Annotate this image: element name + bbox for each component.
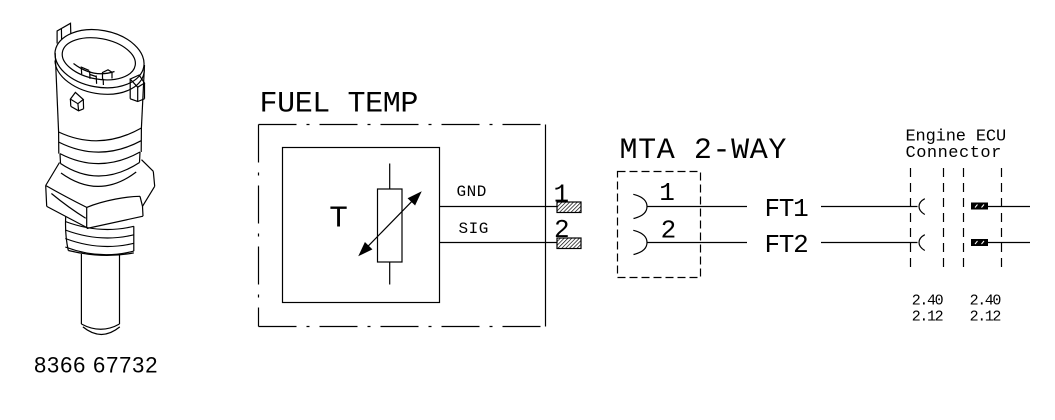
right latch vertical edges: [130, 79, 144, 101]
svg-text:T: T: [329, 202, 348, 237]
body ring arc 1: [59, 128, 142, 141]
svg-text:FUEL TEMP: FUEL TEMP: [260, 88, 418, 122]
svg-text:2.12: 2.12: [970, 309, 1001, 326]
ECU boundary dashed line 2: [943, 168, 945, 269]
arrowhead upper: [409, 193, 421, 205]
ECU boundary dashed line 3: [963, 168, 965, 269]
svg-text:FT1: FT1: [765, 194, 809, 224]
thread arc 1: [65, 222, 134, 230]
fuel temp outer box dash-dot left: [258, 125, 260, 327]
right latch block top face: [130, 75, 144, 87]
MTA terminal arc 2: [633, 230, 647, 254]
ECU boundary dashed line 4: [1001, 168, 1003, 269]
terminal details inside oval: [81, 67, 103, 86]
connector left wall: [55, 53, 58, 132]
svg-text:8366 67732: 8366 67732: [34, 352, 158, 377]
svg-text:MTA 2-WAY: MTA 2-WAY: [620, 134, 787, 168]
MTA connector dashed box: [618, 172, 701, 278]
svg-text:2.40: 2.40: [912, 293, 944, 310]
right latch bottom edges: [130, 99, 144, 102]
locking tab divider: [60, 29, 62, 40]
probe bottom cap lower arc: [83, 327, 120, 335]
wire FT1 right segment: [821, 206, 918, 208]
fuel temp outer box dash-dot bottom: [259, 326, 546, 328]
probe left wall: [80, 254, 82, 324]
svg-text:2: 2: [661, 216, 677, 246]
hex top face chamfer circle arc: [61, 172, 136, 186]
svg-text:2.12: 2.12: [912, 309, 943, 326]
terminal terrace edges: [82, 67, 96, 76]
fuel temp outer box solid right edge: [545, 125, 547, 327]
arrowhead lower: [360, 243, 372, 255]
connector rim lower lip: [55, 61, 144, 95]
svg-text:SIG: SIG: [459, 220, 489, 238]
wire after ECU pin 1: [988, 206, 1030, 208]
terminal key shape: [103, 70, 113, 80]
ECU terminal arc 2: [919, 235, 925, 251]
thread arc 4: [65, 247, 134, 255]
body side walls below rings: [59, 128, 142, 164]
thread arc 2: [65, 230, 134, 238]
body ring arc 3: [60, 152, 140, 164]
svg-text:Connector: Connector: [906, 144, 1002, 163]
SIG wire: [440, 242, 558, 244]
sensor body drawing: [46, 23, 155, 335]
svg-text:1: 1: [659, 178, 675, 208]
MTA terminal arc 1: [633, 194, 647, 218]
svg-text:FT2: FT2: [765, 230, 808, 260]
wire FT1 left segment: [647, 206, 747, 208]
svg-text:GND: GND: [457, 183, 487, 201]
thread side edges: [66, 217, 134, 252]
sensor inner box: [283, 148, 440, 303]
pin 2 hatched terminal: [557, 238, 581, 249]
ECU boundary dashed line 1: [910, 168, 912, 269]
probe bottom cap rim: [81, 324, 119, 329]
hex nut top back edges: [46, 160, 154, 186]
thermistor top lead: [389, 164, 391, 190]
probe right wall: [119, 255, 121, 325]
body ring arc 2: [59, 141, 141, 152]
body cylinder bottom arc: [61, 163, 140, 177]
connector outer oval rim: [50, 23, 149, 95]
wire FT2 right segment: [821, 242, 918, 244]
clip cube vertical edges: [70, 99, 83, 111]
ECU pin block 1: [971, 203, 988, 210]
front-left clip cube top face: [70, 92, 83, 103]
connector right wall: [141, 65, 144, 128]
hex nut top front edge chamfer curve: [87, 196, 140, 207]
thermistor element R: [378, 189, 403, 262]
clip cube bottom edges: [71, 106, 84, 110]
thread runout bottom curve: [68, 251, 134, 256]
thermistor bottom lead: [389, 262, 391, 285]
terminal shelf curve: [74, 64, 115, 74]
ECU terminal arc 1: [919, 199, 925, 215]
hex face chamfer curves: [51, 194, 85, 219]
svg-text:2.40: 2.40: [970, 293, 1002, 310]
connector inner oval rim: [59, 32, 139, 85]
hex nut top front-left edge: [46, 186, 87, 208]
GND wire: [440, 206, 558, 208]
fuel temp outer box dash-dot top: [259, 124, 546, 126]
locking tab flag top-left: [57, 23, 71, 43]
pin 1 hatched terminal: [557, 202, 581, 213]
hex nut bottom edges: [47, 186, 155, 228]
thermistor arrow line: [368, 201, 412, 246]
ECU pin block 2: [971, 239, 988, 246]
wire after ECU pin 2: [988, 242, 1030, 244]
thread arc 3: [65, 239, 134, 247]
wire FT2 left segment: [647, 242, 747, 244]
hex nut vertical edges: [46, 171, 155, 227]
